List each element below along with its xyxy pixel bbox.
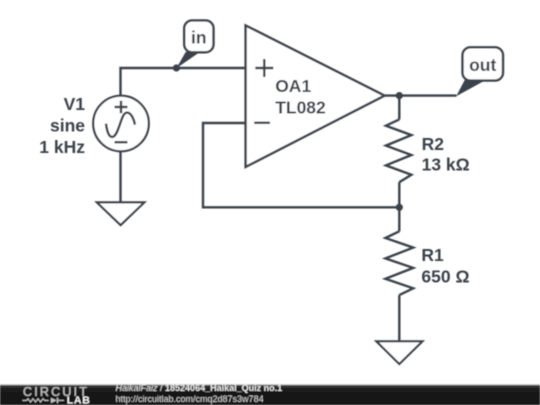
svg-text:http://circuitlab.com/cmq2d87s: http://circuitlab.com/cmq2d87s3w784 [116, 394, 264, 404]
wire op-amp output to out node [385, 94, 457, 96]
ground (below R1) [376, 341, 422, 364]
node label out [456, 47, 503, 96]
voltage source V1 [93, 96, 149, 152]
svg-text:HaikalFaiz / 18524064_Haikal_Q: HaikalFaiz / 18524064_Haikal_Quiz no.1 [116, 383, 283, 393]
node out junction dot [396, 92, 403, 99]
wire R1 bottom to ground [398, 295, 400, 341]
op-amp OA1 [246, 25, 385, 167]
svg-text:out: out [469, 55, 496, 75]
value label OA1 TL082 [275, 76, 326, 117]
svg-text:LAB: LAB [67, 394, 91, 405]
node label in [176, 20, 213, 68]
value label V1 sine 1 kHz [39, 94, 85, 157]
wire V1 bottom to ground [119, 151, 121, 202]
resistor R2 [386, 119, 412, 182]
wire junction down to R1 [398, 207, 400, 231]
svg-text:OA1: OA1 [275, 76, 311, 96]
value label R1 650 Ohm [421, 245, 469, 287]
svg-text:1 kHz: 1 kHz [39, 137, 85, 157]
resistor R1 [385, 231, 413, 295]
value label R2 13 kOhm [422, 134, 470, 174]
svg-text:R1: R1 [421, 245, 444, 265]
wire out node down to R2 [398, 96, 400, 120]
svg-text:TL082: TL082 [275, 98, 326, 118]
svg-text:sine: sine [50, 116, 85, 136]
junction dot (R2/R1/feedback) [396, 204, 403, 211]
svg-text:650 Ω: 650 Ω [421, 267, 469, 287]
feedback wire from op-amp inverting input to junction [203, 123, 399, 207]
svg-text:13 kΩ: 13 kΩ [422, 155, 470, 175]
node in junction dot [173, 64, 180, 71]
footer attribution text [116, 383, 283, 404]
CircuitLab logo [23, 385, 91, 405]
wire R2 bottom to junction [398, 182, 400, 207]
svg-text:V1: V1 [64, 94, 86, 114]
wire V1 top to op-amp non-inverting input [121, 68, 246, 96]
svg-text:in: in [191, 28, 207, 48]
svg-text:R2: R2 [422, 134, 445, 154]
ground (below V1) [97, 202, 144, 225]
footer bar [0, 384, 540, 405]
